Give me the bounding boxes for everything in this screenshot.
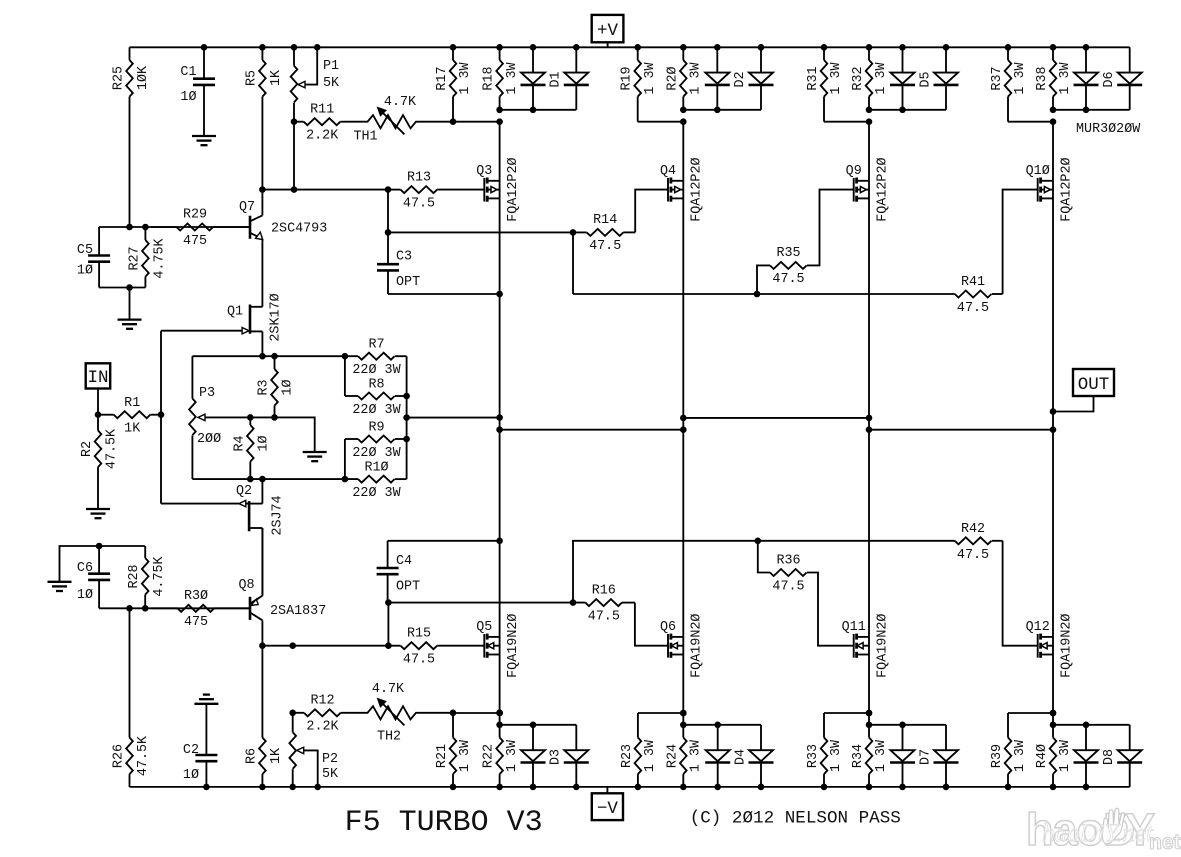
watermark haoDiY.net	[1026, 804, 1181, 855]
svg-text:FQA12P2Ø: FQA12P2Ø	[506, 157, 521, 221]
svg-text:R1Ø: R1Ø	[364, 460, 388, 475]
svg-text:1 3W: 1 3W	[689, 739, 704, 772]
svg-text:D6: D6	[1102, 71, 1117, 87]
wire Q7 base node	[99, 226, 250, 228]
svg-text:FQA19N2Ø: FQA19N2Ø	[690, 614, 705, 678]
svg-text:R15: R15	[407, 626, 431, 641]
svg-text:1 3W: 1 3W	[643, 61, 658, 94]
svg-text:OPT: OPT	[396, 275, 420, 290]
resistor R22	[482, 725, 520, 787]
ground	[118, 320, 142, 329]
svg-text:47.5: 47.5	[772, 272, 804, 287]
svg-text:(C) 2Ø12 NELSON PASS: (C) 2Ø12 NELSON PASS	[690, 808, 901, 828]
svg-text:FQA19N2Ø: FQA19N2Ø	[506, 614, 521, 678]
wire R23 top link	[638, 710, 687, 717]
svg-text:P2: P2	[322, 752, 338, 767]
ground C1	[192, 136, 216, 145]
svg-text:475: 475	[183, 234, 207, 249]
junction dot R11 P1	[291, 118, 298, 125]
transistor Q12 FQA19N20	[1026, 614, 1075, 678]
wire R16 node rise	[572, 541, 574, 603]
wire Q5 source column	[496, 655, 503, 725]
svg-text:D2: D2	[733, 71, 748, 87]
svg-text:R39: R39	[990, 744, 1005, 768]
svg-text:1ØK: 1ØK	[136, 65, 151, 90]
wire gate feed lower	[572, 538, 955, 545]
svg-text:Q9: Q9	[846, 164, 862, 179]
wire R21 top link	[453, 710, 503, 717]
transistor Q4 FQA12P20	[660, 157, 705, 221]
svg-text:1 3W: 1 3W	[829, 61, 844, 94]
capacitor C4	[377, 541, 421, 603]
svg-text:FQA19N2Ø: FQA19N2Ø	[875, 614, 890, 678]
resistor R19	[620, 47, 658, 121]
diode D8 pair	[1074, 725, 1143, 787]
svg-text:Q8: Q8	[238, 578, 254, 593]
wire input node	[95, 331, 165, 504]
resistor R6	[244, 646, 284, 787]
svg-text:47.5: 47.5	[772, 579, 804, 594]
ground	[48, 582, 72, 591]
svg-text:D7: D7	[918, 749, 933, 765]
node +V	[592, 15, 624, 47]
transistor Q8 2SA1837	[238, 528, 326, 646]
node IN	[86, 363, 111, 414]
svg-text:475: 475	[184, 615, 208, 630]
svg-text:D1: D1	[549, 71, 564, 87]
svg-text:MUR3Ø2ØW: MUR3Ø2ØW	[1076, 122, 1141, 137]
wire output bus B	[500, 429, 684, 431]
wire Q12 source column	[1050, 655, 1057, 725]
junction dots +V rail	[201, 44, 1090, 51]
resistor R18	[482, 47, 520, 110]
resistor R28	[127, 546, 167, 608]
wire Q8 base node	[96, 543, 250, 612]
svg-text:FQA12P2Ø: FQA12P2Ø	[690, 157, 705, 221]
resistor R12	[293, 694, 346, 735]
resistor R5	[244, 47, 284, 189]
resistor R7	[352, 338, 401, 379]
resistor R11	[294, 102, 346, 143]
svg-text:1 3W: 1 3W	[874, 739, 889, 772]
svg-text:1Ø: 1Ø	[77, 588, 93, 603]
svg-text:1 3W: 1 3W	[505, 739, 520, 772]
wire output column Q3-Q5	[496, 198, 503, 637]
svg-text:Q11: Q11	[842, 620, 866, 635]
svg-text:R4Ø: R4Ø	[1035, 744, 1050, 768]
svg-text:+V: +V	[597, 21, 619, 41]
resistor R39	[990, 713, 1028, 787]
wire output column Q9-Q11	[866, 198, 873, 637]
transistor Q10 FQA12P20	[1026, 157, 1075, 221]
wire R33 top link	[824, 710, 872, 717]
resistor R10	[352, 460, 401, 501]
svg-text:IN: IN	[87, 368, 108, 388]
wire D7 sub-rail	[866, 722, 946, 729]
svg-text:47.5K: 47.5K	[105, 428, 120, 469]
svg-text:R7: R7	[368, 338, 384, 353]
svg-text:22Ø 3W: 22Ø 3W	[352, 403, 401, 418]
wire R16 to Q6 gate	[570, 599, 669, 645]
svg-text:Q7: Q7	[239, 200, 255, 215]
svg-text:haoDiY.net: haoDiY.net	[1042, 820, 1154, 847]
resistor R35	[757, 190, 854, 294]
svg-text:P1: P1	[323, 59, 339, 74]
diode D1 pair	[521, 47, 589, 110]
resistor R31	[806, 47, 844, 121]
wire -V rail	[130, 786, 1130, 788]
svg-text:R26: R26	[112, 744, 127, 768]
svg-text:2SK17Ø: 2SK17Ø	[268, 293, 283, 341]
svg-text:R28: R28	[127, 564, 142, 588]
wire Q10 drain column	[1052, 122, 1054, 181]
svg-text:2SJ74: 2SJ74	[271, 495, 286, 535]
svg-text:R16: R16	[592, 583, 616, 598]
svg-text:R31: R31	[806, 66, 821, 90]
svg-text:Q3: Q3	[476, 164, 492, 179]
junction dots Q7 base area	[126, 224, 149, 291]
svg-text:R6: R6	[244, 748, 259, 764]
resistor R4	[232, 417, 271, 479]
resistor R26	[112, 608, 152, 787]
capacitor C6	[77, 546, 110, 608]
svg-text:R22: R22	[482, 744, 497, 768]
resistor R29	[151, 208, 250, 249]
svg-text:2.2K: 2.2K	[306, 129, 339, 144]
svg-text:D8: D8	[1102, 749, 1117, 765]
resistor R30	[151, 589, 250, 630]
svg-text:1 3W: 1 3W	[1058, 739, 1073, 772]
svg-text:D4: D4	[733, 749, 748, 765]
transistor Q11 FQA19N20	[842, 614, 891, 678]
junction dots -V rail	[203, 784, 1089, 791]
diode D7 pair	[890, 725, 959, 787]
svg-text:R42: R42	[961, 522, 985, 537]
wire Q4 drain column	[682, 122, 684, 181]
resistor R27	[127, 227, 167, 288]
wire Q3 gate node	[259, 186, 391, 193]
svg-text:4.75K: 4.75K	[152, 555, 167, 596]
svg-text:R32: R32	[851, 66, 866, 90]
svg-text:D3: D3	[549, 749, 564, 765]
wire Q11 source column	[866, 655, 873, 725]
svg-text:22Ø 3W: 22Ø 3W	[352, 363, 401, 378]
svg-text:22Ø 3W: 22Ø 3W	[352, 486, 401, 501]
wire Q3 drain column	[499, 122, 501, 181]
svg-text:4.75K: 4.75K	[152, 237, 167, 278]
svg-text:2SC4793: 2SC4793	[271, 222, 327, 237]
svg-text:1 3W: 1 3W	[643, 739, 658, 772]
diode D5 pair	[890, 47, 959, 110]
wire P3 wiper node	[247, 414, 315, 452]
svg-text:R34: R34	[851, 744, 866, 768]
wire D3 sub-rail	[496, 722, 576, 729]
svg-text:R36: R36	[776, 553, 800, 568]
svg-text:C4: C4	[396, 554, 412, 569]
svg-text:R2Ø: R2Ø	[665, 66, 680, 90]
svg-text:TH1: TH1	[353, 130, 377, 145]
svg-text:FQA12P2Ø: FQA12P2Ø	[1059, 157, 1074, 221]
wire Q5 gate node	[259, 642, 392, 649]
svg-text:47.5: 47.5	[589, 239, 621, 254]
wire output bus C	[683, 417, 869, 419]
svg-text:Q4: Q4	[660, 164, 676, 179]
svg-text:2.2K: 2.2K	[306, 720, 339, 735]
ground C2	[194, 695, 218, 704]
wire D2 sub-rail	[680, 107, 761, 114]
svg-text:R2: R2	[80, 441, 95, 457]
potentiometer P2	[289, 713, 339, 787]
wire output bus A	[407, 417, 500, 419]
svg-text:C1: C1	[180, 65, 196, 80]
svg-text:1 3W: 1 3W	[1013, 739, 1028, 772]
svg-text:Q2: Q2	[236, 484, 252, 499]
svg-text:D5: D5	[918, 71, 933, 87]
svg-text:1 3W: 1 3W	[1013, 61, 1028, 94]
svg-text:R21: R21	[435, 744, 450, 768]
capacitor C2	[183, 704, 217, 787]
resistor R14	[388, 213, 635, 254]
svg-text:C6: C6	[77, 561, 93, 576]
svg-text:FQA12P2Ø: FQA12P2Ø	[875, 157, 890, 221]
svg-text:1 3W: 1 3W	[505, 61, 520, 94]
transistor Q7 2SC4793	[239, 190, 327, 307]
wire R14 to Q4 gate	[570, 190, 669, 236]
svg-text:R1: R1	[124, 396, 140, 411]
svg-text:R33: R33	[806, 744, 821, 768]
svg-text:1Ø: 1Ø	[180, 90, 196, 105]
capacitor C3	[377, 232, 420, 294]
resistor R3	[257, 356, 296, 417]
resistor R34	[851, 725, 889, 787]
wire C6/R28 top	[60, 546, 145, 582]
svg-text:F5 TURBO V3: F5 TURBO V3	[345, 806, 543, 840]
thermistor TH2	[346, 682, 454, 745]
wire output column Q10-Q12	[1050, 198, 1057, 637]
svg-text:R8: R8	[368, 377, 384, 392]
wire R14 node drop	[572, 232, 574, 294]
wire R31 bottom link	[824, 118, 872, 125]
svg-text:C3: C3	[396, 250, 412, 265]
svg-text:R29: R29	[183, 208, 207, 223]
wire R19 bottom link	[638, 118, 687, 125]
ground	[303, 452, 327, 461]
wire R39 top link	[1008, 710, 1056, 717]
svg-text:Q5: Q5	[476, 620, 492, 635]
resistor R16	[388, 583, 635, 624]
svg-text:R37: R37	[990, 66, 1005, 90]
svg-text:47.5: 47.5	[957, 301, 989, 316]
diode D4 pair	[705, 725, 773, 787]
svg-text:1Ø: 1Ø	[77, 264, 93, 279]
node OUT	[1053, 369, 1114, 412]
svg-text:1 3W: 1 3W	[458, 61, 473, 94]
resistor R33	[806, 713, 844, 787]
svg-text:R35: R35	[776, 246, 800, 261]
wire output column Q4-Q6	[680, 198, 687, 637]
diode D2 pair	[705, 47, 774, 110]
svg-text:47.5: 47.5	[403, 196, 435, 211]
svg-text:OPT: OPT	[396, 580, 420, 595]
wire D4 sub-rail	[680, 722, 761, 729]
svg-text:1Ø: 1Ø	[281, 379, 296, 395]
wire R7-R10 bank	[345, 356, 410, 479]
transistor Q5 FQA19N20	[476, 614, 521, 678]
resistor R40	[1035, 725, 1073, 787]
wire R17 bottom link	[453, 118, 503, 125]
svg-text:R11: R11	[310, 102, 334, 117]
svg-text:1Ø: 1Ø	[256, 435, 271, 451]
svg-text:C5: C5	[77, 243, 93, 258]
wire Q6 source column	[680, 655, 687, 725]
svg-text:R9: R9	[368, 420, 384, 435]
svg-text:2SA1837: 2SA1837	[270, 604, 326, 619]
wire R37 bottom link	[1008, 118, 1056, 125]
diode D3 pair	[521, 725, 589, 787]
capacitor C1	[180, 47, 215, 136]
resistor R38	[1035, 47, 1073, 110]
svg-text:R4: R4	[232, 435, 247, 451]
transistor Q9 FQA12P20	[846, 157, 891, 221]
svg-text:R24: R24	[665, 744, 680, 768]
resistor R41	[955, 275, 1003, 316]
svg-text:1K: 1K	[269, 747, 284, 764]
svg-text:R41: R41	[961, 275, 985, 290]
wire C4 top to Q5 column	[388, 538, 503, 545]
wire D5 sub-rail	[866, 107, 946, 114]
svg-text:Q12: Q12	[1026, 620, 1050, 635]
svg-text:1 3W: 1 3W	[829, 739, 844, 772]
svg-text:R19: R19	[620, 66, 635, 90]
svg-text:net: net	[1149, 831, 1181, 854]
resistor R21	[435, 713, 473, 787]
resistor R42	[955, 522, 1003, 563]
node −V	[592, 787, 623, 820]
wire D6 sub-rail	[1050, 107, 1130, 114]
svg-text:R17: R17	[435, 66, 450, 90]
capacitor C5	[77, 227, 110, 288]
svg-text:−V: −V	[597, 799, 619, 819]
svg-text:1 3W: 1 3W	[874, 61, 889, 94]
svg-text:OUT: OUT	[1078, 375, 1110, 395]
junction dot R12 P2	[289, 710, 296, 717]
svg-text:1K: 1K	[269, 69, 284, 86]
svg-text:Q1Ø: Q1Ø	[1026, 164, 1050, 179]
svg-text:1Ø: 1Ø	[183, 768, 199, 783]
wire R41 to Q10 gate	[1003, 190, 1038, 294]
resistor R8	[352, 377, 401, 418]
svg-text:1 3W: 1 3W	[689, 61, 704, 94]
svg-text:47.5: 47.5	[403, 653, 435, 668]
svg-text:R27: R27	[127, 246, 142, 270]
svg-text:FQA19N2Ø: FQA19N2Ø	[1059, 614, 1074, 678]
wire D1 sub-rail	[496, 107, 576, 114]
wire D8 sub-rail	[1050, 722, 1130, 729]
svg-text:4.7K: 4.7K	[384, 95, 417, 110]
diode D6 pair	[1074, 47, 1143, 110]
resistor R1	[98, 396, 161, 437]
svg-text:Q1: Q1	[227, 305, 243, 320]
svg-text:4.7K: 4.7K	[372, 682, 405, 697]
transistor Q3 FQA12P20	[476, 157, 521, 221]
resistor R36	[758, 541, 854, 646]
svg-text:R18: R18	[482, 66, 497, 90]
wire Q9 drain column	[868, 122, 870, 181]
wire output bus D	[869, 429, 1053, 431]
svg-text:R38: R38	[1035, 66, 1050, 90]
potentiometer P1	[291, 47, 340, 189]
svg-text:Q6: Q6	[660, 620, 676, 635]
resistor R17	[435, 47, 473, 121]
transistor Q6 FQA19N20	[660, 614, 705, 678]
svg-text:R5: R5	[244, 70, 259, 86]
svg-text:R25: R25	[112, 66, 127, 90]
resistor R32	[851, 47, 889, 110]
svg-text:5K: 5K	[323, 76, 340, 91]
wire C5/R27 bottom	[99, 288, 145, 320]
svg-text:1K: 1K	[124, 422, 141, 437]
wire +V rail	[130, 46, 1130, 48]
resistor R2	[80, 415, 120, 509]
svg-text:R23: R23	[620, 744, 635, 768]
svg-text:P3: P3	[199, 386, 215, 401]
resistor R20	[665, 47, 703, 110]
wire C3 bottom to Q3 source	[388, 291, 503, 298]
potentiometer P3	[189, 356, 250, 479]
wire Q2 source node	[192, 476, 358, 483]
ground	[86, 509, 110, 518]
thermistor TH1	[346, 95, 454, 145]
svg-text:47.5: 47.5	[957, 548, 989, 563]
transistor Q1 2SK170	[161, 293, 283, 356]
svg-text:R13: R13	[407, 170, 431, 185]
junction dot TH2 Q5	[496, 710, 503, 717]
svg-text:R12: R12	[310, 694, 334, 709]
svg-text:1 3W: 1 3W	[1058, 61, 1073, 94]
svg-text:R3Ø: R3Ø	[184, 589, 208, 604]
svg-text:1 3W: 1 3W	[458, 739, 473, 772]
svg-text:5K: 5K	[322, 767, 339, 782]
wire Q1 source node	[192, 353, 358, 360]
svg-text:R3: R3	[257, 379, 272, 395]
transistor Q2 2SJ74	[161, 479, 286, 596]
resistor R25	[112, 47, 152, 227]
svg-text:R14: R14	[593, 213, 617, 228]
junction dot R21 TH2	[450, 710, 457, 717]
wire C4 node	[385, 599, 392, 645]
svg-text:C2: C2	[183, 743, 199, 758]
svg-text:22Ø 3W: 22Ø 3W	[352, 446, 401, 461]
svg-text:TH2: TH2	[377, 730, 401, 745]
resistor R23	[620, 713, 658, 787]
resistor R15	[388, 626, 484, 667]
svg-text:47.5K: 47.5K	[136, 735, 151, 776]
resistor R37	[990, 47, 1028, 121]
wire C3 node	[385, 190, 392, 236]
svg-text:2ØØ: 2ØØ	[197, 432, 221, 447]
svg-text:47.5: 47.5	[588, 609, 620, 624]
resistor R9	[352, 420, 401, 461]
wire gate feed upper	[573, 291, 955, 298]
wire R42 to Q12 gate	[1003, 541, 1038, 646]
resistor R24	[665, 725, 703, 787]
junction dot R17 TH1	[450, 118, 457, 125]
resistor R13	[388, 170, 484, 211]
